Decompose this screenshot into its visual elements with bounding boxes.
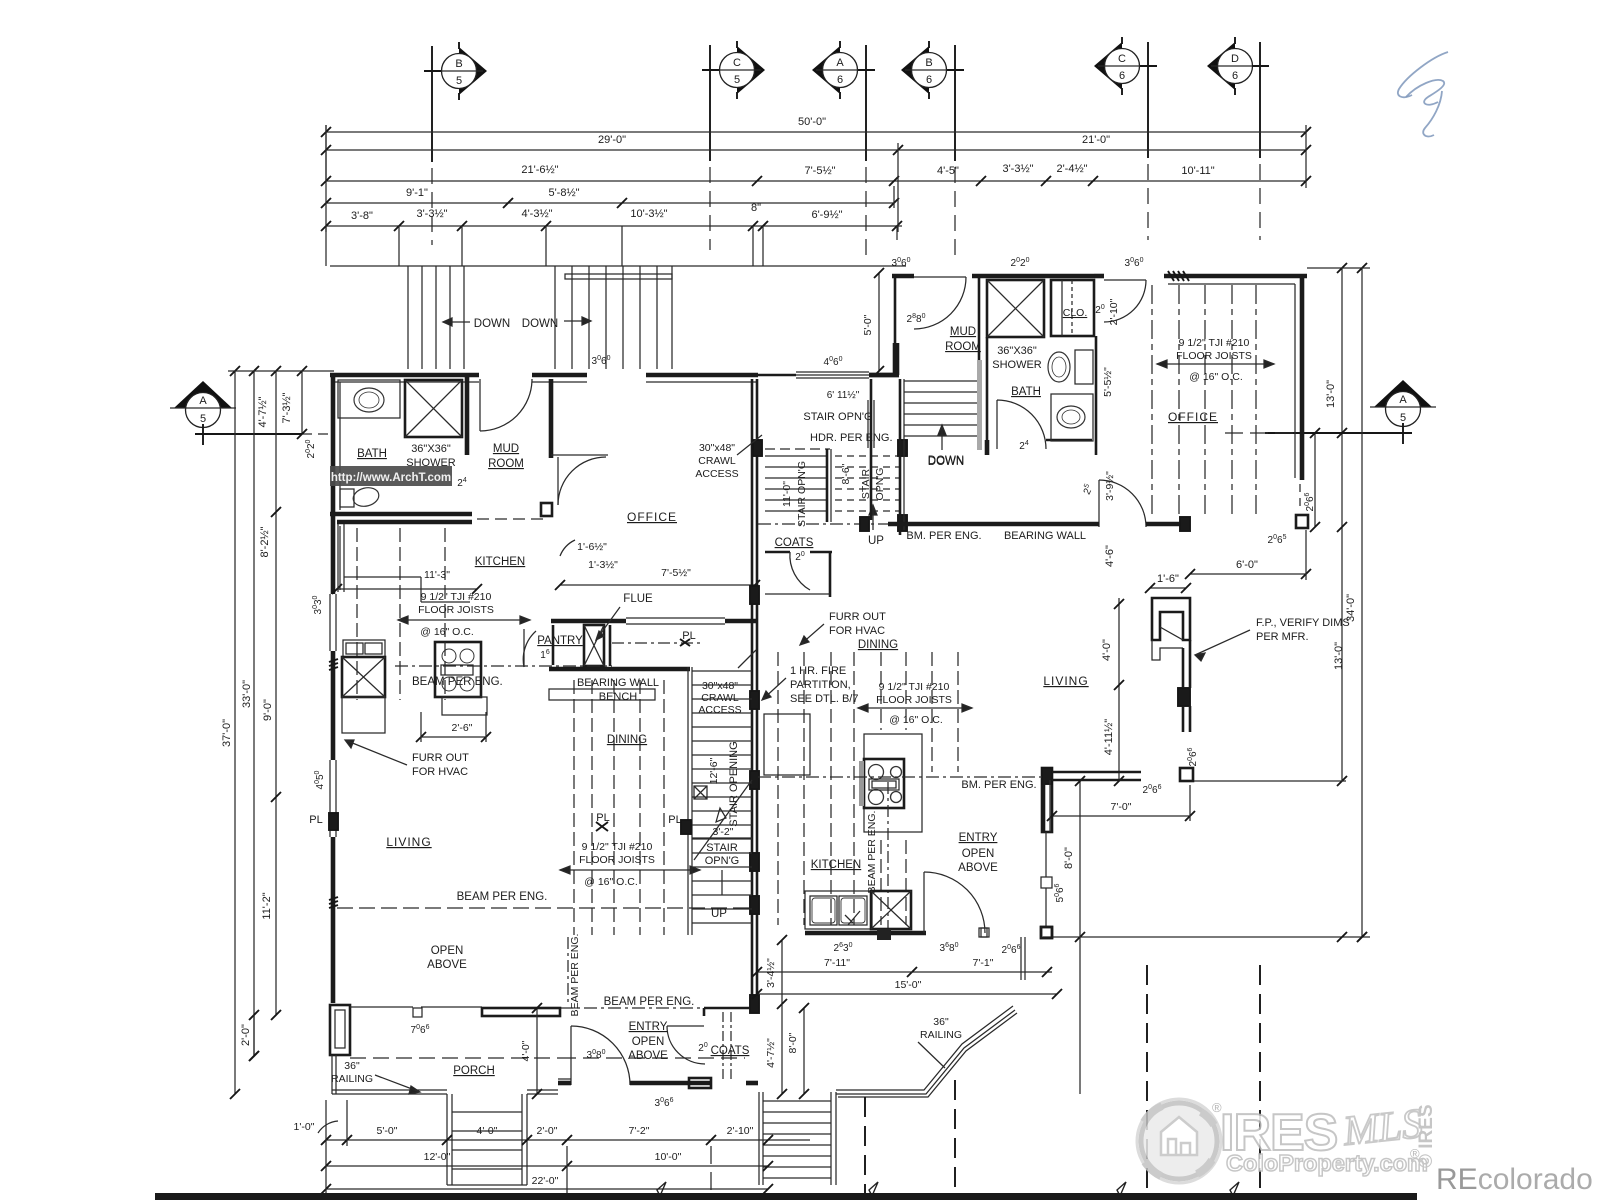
svg-text:9 1/2" TJI #210: 9 1/2" TJI #210: [582, 841, 653, 853]
svg-text:1 HR. FIRE: 1 HR. FIRE: [790, 665, 846, 677]
svg-text:7'-5½": 7'-5½": [804, 165, 835, 177]
svg-text:3'-3½": 3'-3½": [1002, 163, 1033, 175]
svg-text:F.P., VERIFY DIMS: F.P., VERIFY DIMS: [1256, 617, 1350, 629]
svg-text:3680: 3680: [940, 942, 959, 954]
svg-text:4'-0": 4'-0": [1101, 639, 1113, 661]
stair diagonal slash: [694, 780, 752, 860]
svg-text:C: C: [1118, 53, 1126, 65]
left stair treads: [692, 670, 752, 672]
svg-text:12'-0": 12'-0": [424, 1151, 451, 1163]
bottom dim row 2: [326, 1165, 768, 1167]
svg-text:BM. PER ENG.: BM. PER ENG.: [961, 779, 1036, 791]
PL dash-dot at y643: [612, 642, 700, 644]
svg-text:25: 25: [1081, 483, 1096, 497]
svg-text:9 1/2" TJI #210: 9 1/2" TJI #210: [421, 591, 492, 603]
stair B rail bar: [565, 274, 672, 279]
flue box: [584, 625, 604, 666]
svg-text:16: 16: [540, 649, 550, 661]
svg-text:8'-0": 8'-0": [1063, 847, 1075, 869]
svg-text:9 1/2" TJI #210: 9 1/2" TJI #210: [1179, 337, 1250, 349]
hatch blocks right shaft: [753, 440, 762, 456]
svg-text:FLOOR JOISTS: FLOOR JOISTS: [1176, 350, 1252, 362]
svg-text:13'-0": 13'-0": [1333, 642, 1345, 670]
coats closet walls upper: [765, 551, 790, 554]
mudroom/office wall: [549, 379, 554, 458]
porch corner post: [330, 1005, 350, 1055]
svg-text:STAIR OPN'G: STAIR OPN'G: [796, 461, 808, 527]
office south wall + window: [551, 619, 626, 624]
svg-text:DINING: DINING: [858, 639, 898, 651]
svg-text:OPEN: OPEN: [962, 848, 995, 860]
upper floor deck outline (thin): [330, 265, 906, 267]
svg-text:7'-3½": 7'-3½": [281, 392, 293, 423]
svg-text:1'-6": 1'-6": [1157, 573, 1179, 585]
svg-text:7'-1": 7'-1": [973, 957, 994, 969]
grid marker A/6: [812, 41, 864, 99]
svg-text:RAILING: RAILING: [331, 1073, 373, 1085]
mudroom west lower wall + window: [870, 379, 873, 455]
mud room west wall: [894, 276, 897, 343]
svg-text:© IRES: © IRES: [1416, 1104, 1437, 1168]
svg-text:9 1/2" TJI #210: 9 1/2" TJI #210: [879, 681, 950, 693]
porch railing right of steps: [527, 1089, 558, 1091]
svg-text:SEE DTL. B/7: SEE DTL. B/7: [790, 693, 858, 705]
coats door: [667, 1025, 704, 1027]
svg-text:BEAM PER ENG.: BEAM PER ENG.: [457, 891, 548, 903]
kitchen joist dashed lines: [356, 528, 358, 700]
bearing wall south of bath2: [888, 522, 1099, 527]
bottom dim row 3: [326, 1188, 768, 1190]
bath2 walls: [986, 337, 989, 455]
svg-text:BATH: BATH: [357, 448, 387, 460]
svg-text:ENTRY: ENTRY: [959, 832, 998, 844]
bottom dim row 1: [326, 1139, 810, 1141]
svg-text:2066: 2066: [1304, 492, 1316, 511]
svg-text:PORCH: PORCH: [453, 1065, 495, 1077]
top dimension lines: [326, 131, 1306, 133]
section cut dashes left: [302, 433, 330, 435]
svg-text:DOWN: DOWN: [474, 318, 510, 330]
svg-text:36"X36": 36"X36": [411, 443, 451, 455]
kitchen/mudroom boundary dashes: [477, 518, 548, 520]
porch 4-0 vertical dim: [536, 1008, 538, 1094]
right dimension columns: [1341, 268, 1343, 781]
hatch marks on office top wall: [1168, 271, 1174, 281]
svg-text:ABOVE: ABOVE: [958, 862, 998, 874]
refrigerator: [764, 714, 810, 775]
svg-text:®: ®: [1212, 1100, 1222, 1115]
svg-text:4'-11½": 4'-11½": [1103, 719, 1115, 755]
svg-text:3'-8": 3'-8": [351, 210, 373, 222]
svg-text:FLUE: FLUE: [623, 593, 653, 605]
svg-text:OFFICE: OFFICE: [627, 510, 677, 524]
left dimension columns: [234, 371, 236, 1094]
blue signature top right: [1398, 52, 1448, 97]
svg-text:COATS: COATS: [711, 1045, 750, 1057]
svg-text:5: 5: [200, 413, 206, 425]
svg-text:30"x48": 30"x48": [702, 680, 738, 692]
svg-text:@ 16" O.C.: @ 16" O.C.: [420, 626, 473, 638]
svg-text:37'-0": 37'-0": [221, 719, 233, 747]
svg-text:A: A: [1399, 394, 1407, 406]
hatch block corner: [1042, 768, 1052, 784]
svg-text:4'-5": 4'-5": [937, 165, 959, 177]
dashed verticals lower right: [864, 1097, 866, 1195]
down stairs mudroom: [899, 379, 902, 535]
svg-text:1'-0": 1'-0": [294, 1121, 315, 1133]
svg-text:3060: 3060: [892, 257, 911, 269]
fireplace: [1152, 598, 1190, 640]
svg-text:3030: 3030: [312, 595, 324, 614]
svg-text:SHOWER: SHOWER: [992, 359, 1042, 371]
svg-text:4'-7½": 4'-7½": [257, 396, 269, 427]
kitchen joist arrow: [398, 616, 530, 624]
right vertical dims entry: [781, 940, 783, 1004]
mud room door arc (from top wall): [479, 379, 481, 431]
svg-text:24: 24: [1019, 440, 1029, 452]
window west of entry door: [558, 1078, 571, 1080]
tick slashes on bottom line: [657, 1182, 666, 1196]
dining joist arrow: [560, 869, 700, 871]
svg-text:6' 11½": 6' 11½": [827, 390, 860, 401]
entry door right: [923, 872, 925, 933]
svg-text:2880: 2880: [907, 313, 926, 325]
svg-text:REcolorado: REcolorado: [1436, 1163, 1593, 1196]
entry east wall pieces: [1043, 780, 1046, 832]
svg-text:BEAM PER ENG.: BEAM PER ENG.: [412, 676, 503, 688]
svg-text:FLOOR JOISTS: FLOOR JOISTS: [579, 854, 655, 866]
svg-text:15'-0": 15'-0": [895, 979, 922, 991]
svg-text:@ 16" O.C.: @ 16" O.C.: [1189, 371, 1242, 383]
svg-text:4'-0": 4'-0": [477, 1125, 498, 1137]
bottom border line: [155, 1193, 1417, 1200]
svg-text:8'-6": 8'-6": [840, 463, 852, 484]
svg-text:8'-2½": 8'-2½": [259, 526, 271, 557]
svg-text:PL: PL: [309, 814, 322, 826]
svg-text:4'-3½": 4'-3½": [521, 208, 552, 220]
kitchen counter outline: [337, 524, 339, 592]
right kitchen sink counter: [805, 891, 872, 929]
svg-text:C: C: [733, 57, 741, 69]
svg-text:OFFICE: OFFICE: [1168, 410, 1218, 424]
svg-text:OPEN: OPEN: [431, 945, 464, 957]
svg-text:36": 36": [933, 1016, 949, 1028]
svg-text:UP: UP: [711, 908, 727, 920]
bearing wall bench: [549, 667, 690, 672]
7-0 dim: [1052, 815, 1190, 817]
2-6 dim kitchen: [421, 736, 486, 738]
svg-text:10'-0": 10'-0": [655, 1151, 682, 1163]
left exterior wall: [331, 375, 336, 594]
svg-text:9'-1": 9'-1": [406, 187, 428, 199]
svg-text:FLOOR JOISTS: FLOOR JOISTS: [418, 604, 494, 616]
svg-text:11'-2": 11'-2": [261, 892, 273, 919]
office door: [557, 457, 559, 505]
grid marker C/6: [1094, 37, 1146, 95]
bath2 fixtures: toilet: [1075, 350, 1093, 384]
inner face lines (double-line walls): [333, 381, 479, 383]
grid marker D/6: [1207, 37, 1259, 95]
right stair shaft (upper): [765, 448, 830, 450]
svg-text:PER MFR.: PER MFR.: [1256, 631, 1309, 643]
right side porch wall pieces: [1041, 927, 1052, 938]
hatch blocks on fire wall: [750, 586, 759, 604]
svg-text:4'-7½": 4'-7½": [765, 1038, 777, 1068]
svg-text:2630: 2630: [834, 942, 853, 954]
bath2 L walls: [1046, 439, 1092, 442]
svg-text:5'-5½": 5'-5½": [1102, 367, 1114, 397]
svg-text:2065: 2065: [1268, 534, 1287, 546]
top wall of left section: [330, 373, 479, 378]
svg-text:ColoProperty.com: ColoProperty.com: [1226, 1150, 1428, 1176]
porch front steps: [446, 1094, 448, 1185]
svg-text:20: 20: [1095, 304, 1105, 316]
svg-text:24: 24: [457, 477, 467, 489]
svg-text:BEAM PER ENG.: BEAM PER ENG.: [604, 996, 695, 1008]
svg-text:8'-0": 8'-0": [787, 1032, 799, 1053]
svg-text:4060: 4060: [824, 356, 843, 368]
shower 36x36 (left): [405, 380, 462, 437]
svg-text:BEAM PER ENG.: BEAM PER ENG.: [569, 934, 581, 1017]
svg-text:KITCHEN: KITCHEN: [811, 859, 861, 871]
stair rail gray bar: [977, 360, 982, 450]
svg-text:RAILING: RAILING: [920, 1029, 962, 1041]
svg-text:33'-0": 33'-0": [241, 680, 253, 708]
svg-text:@ 16" O.C.: @ 16" O.C.: [584, 876, 637, 888]
svg-text:9'-0": 9'-0": [262, 699, 274, 721]
svg-text:BM. PER ENG.: BM. PER ENG.: [906, 530, 981, 542]
stair B down arrow: [564, 317, 591, 325]
svg-text:MUD: MUD: [950, 326, 976, 338]
svg-text:2'-10": 2'-10": [727, 1125, 754, 1137]
crawl access leader: [738, 650, 756, 668]
porch open-above edge lines: [350, 1006, 413, 1008]
svg-text:20: 20: [698, 1042, 708, 1054]
CLO: [1051, 280, 1094, 336]
svg-text:6: 6: [1119, 70, 1125, 82]
svg-text:30"x48": 30"x48": [699, 442, 735, 454]
section cut dashes right: [1225, 432, 1300, 434]
svg-text:10'-11": 10'-11": [1181, 165, 1214, 177]
2-0 dim left bottom: [253, 1015, 255, 1056]
section marker A/5 right: [1370, 380, 1436, 427]
svg-text:STAIR OPENING: STAIR OPENING: [728, 741, 740, 826]
stair A down arrow: [443, 318, 470, 326]
bench outline: [549, 689, 655, 700]
small post right: [1180, 768, 1193, 781]
svg-text:OPN'G: OPN'G: [705, 855, 740, 867]
svg-text:DOWN: DOWN: [522, 318, 558, 330]
svg-text:STAIR OPN'G: STAIR OPN'G: [803, 411, 872, 423]
right joist arrow: [858, 707, 972, 709]
clo door arc: [1104, 279, 1146, 281]
right kitchen joist dashed lines: [777, 652, 779, 925]
svg-text:PARTITION,: PARTITION,: [790, 679, 851, 691]
svg-text:29'-0": 29'-0": [598, 134, 626, 146]
svg-text:1'-3½": 1'-3½": [588, 559, 618, 571]
svg-text:3060: 3060: [592, 355, 611, 367]
svg-text:13'-0": 13'-0": [1325, 380, 1337, 408]
svg-text:CLO.: CLO.: [1063, 307, 1088, 319]
bottom extension lines: [325, 1100, 327, 1195]
svg-text:2'-0": 2'-0": [240, 1024, 252, 1046]
entry ext stairs: [758, 1092, 760, 1185]
svg-text:MUD: MUD: [493, 443, 519, 455]
svg-text:36"X36": 36"X36": [997, 345, 1037, 357]
svg-text:2'-6": 2'-6": [452, 722, 473, 734]
svg-text:50'-0": 50'-0": [798, 116, 826, 128]
svg-text:3'-3½": 3'-3½": [416, 208, 447, 220]
fire partition wall (center): [751, 379, 754, 1004]
beam line into living: [758, 776, 1042, 778]
bath1 vanity counter: [338, 380, 400, 418]
svg-text:FURR OUT: FURR OUT: [829, 611, 886, 623]
svg-text:ENTRY: ENTRY: [629, 1021, 668, 1033]
svg-text:KITCHEN: KITCHEN: [475, 556, 525, 568]
svg-text:LIVING: LIVING: [1043, 674, 1088, 688]
porch railing: [332, 1089, 447, 1091]
IRES MLS watermark: [1137, 1099, 1437, 1183]
bath1 sink: [354, 388, 384, 412]
jog wall top: [869, 373, 899, 378]
7-1 dim: [912, 971, 1052, 973]
svg-text:FURR OUT: FURR OUT: [412, 752, 469, 764]
svg-text:11'-0": 11'-0": [781, 481, 793, 507]
porch post middle: [413, 1008, 422, 1017]
grid marker B/5: [435, 42, 487, 100]
svg-text:6: 6: [926, 74, 932, 86]
svg-text:5066: 5066: [1054, 883, 1066, 902]
svg-text:ABOVE: ABOVE: [427, 959, 467, 971]
svg-text:DOWN: DOWN: [928, 455, 964, 467]
svg-text:7'-2": 7'-2": [629, 1125, 650, 1137]
svg-text:BATH: BATH: [1011, 386, 1041, 398]
svg-text:10'-3½": 10'-3½": [630, 208, 667, 220]
left stair shaft wall: [687, 667, 689, 935]
svg-text:BEAM PER ENG.: BEAM PER ENG.: [866, 811, 878, 894]
svg-text:PANTRY: PANTRY: [537, 635, 583, 647]
svg-text:BEARING WALL: BEARING WALL: [577, 677, 659, 689]
svg-text:BENCH: BENCH: [599, 691, 638, 703]
svg-text:6'-0": 6'-0": [1236, 559, 1258, 571]
svg-text:2066: 2066: [1143, 784, 1162, 796]
svg-text:20: 20: [795, 551, 805, 563]
top stair A (down) treads: [407, 266, 409, 369]
section marker A/5 left: [170, 381, 236, 428]
svg-text:CRAWL: CRAWL: [698, 455, 736, 467]
kitchen island w/ range: [864, 734, 922, 832]
small xbox: [694, 786, 707, 799]
svg-text:5'-8½": 5'-8½": [548, 187, 579, 199]
7-11 dim: [757, 971, 912, 973]
svg-text:3'-2": 3'-2": [713, 826, 734, 838]
svg-text:A: A: [836, 57, 844, 69]
right office joist dashed: [1151, 285, 1153, 515]
beam over entry: [482, 1008, 560, 1016]
svg-text:ACCESS: ACCESS: [695, 468, 738, 480]
svg-text:3'-9½": 3'-9½": [1104, 471, 1116, 501]
mudroom NW jog wall: [869, 373, 899, 378]
bath2 south door: [1098, 480, 1100, 527]
svg-text:2020: 2020: [1011, 257, 1030, 269]
entry door (3-0-8-0): [570, 1026, 572, 1085]
svg-text:2066: 2066: [1002, 944, 1021, 956]
hatch post marks on left wall: [329, 659, 338, 662]
svg-text:UP: UP: [868, 535, 884, 547]
top wall right section: [892, 274, 914, 279]
svg-text:4050: 4050: [314, 770, 326, 789]
svg-text:B: B: [455, 58, 462, 70]
svg-text:12'-6": 12'-6": [708, 757, 720, 784]
right kitchen X cabinet: [871, 891, 911, 929]
3-2 dim: [692, 837, 752, 839]
porch beams dashed: [350, 1057, 560, 1059]
svg-text:8": 8": [751, 202, 761, 214]
grid marker B/6: [901, 41, 953, 99]
svg-text:ROOM: ROOM: [488, 458, 524, 470]
svg-text:2'-4½": 2'-4½": [1056, 163, 1087, 175]
svg-text:ABOVE: ABOVE: [628, 1050, 668, 1062]
svg-text:5: 5: [456, 75, 462, 87]
svg-text:7066: 7066: [411, 1024, 430, 1036]
svg-text:2020: 2020: [305, 439, 317, 458]
svg-text:5'-0": 5'-0": [862, 314, 874, 335]
svg-text:21'-6½": 21'-6½": [521, 164, 558, 176]
svg-text:OPEN: OPEN: [632, 1036, 665, 1048]
svg-text:COATS: COATS: [775, 537, 814, 549]
ArchT watermark bar: [330, 466, 452, 486]
svg-text:2066: 2066: [1187, 747, 1199, 766]
kitchen south wall: [805, 931, 926, 936]
15-0 dim: [757, 993, 1057, 995]
kitchen counter + sink (left wall): [343, 640, 385, 657]
south walls entry: [558, 1081, 571, 1086]
svg-text:4'-6": 4'-6": [1104, 545, 1116, 567]
svg-text:A: A: [199, 395, 207, 407]
svg-text:ACCESS: ACCESS: [698, 704, 741, 716]
svg-text:1'-6½": 1'-6½": [577, 541, 607, 553]
stove/range: [435, 642, 481, 697]
office joist arrow: [1157, 363, 1274, 365]
svg-text:BEARING WALL: BEARING WALL: [1004, 530, 1086, 542]
svg-text:3060: 3060: [1125, 257, 1144, 269]
closet dash-dot verticals: [722, 1012, 724, 1082]
svg-text:3080: 3080: [587, 1049, 606, 1061]
svg-text:ROOM: ROOM: [945, 341, 981, 353]
dashed open railing right shaft: [835, 455, 900, 457]
top-right office corner wall: [1300, 276, 1305, 480]
svg-text:LIVING: LIVING: [386, 835, 431, 849]
bath2 door from hall: [997, 400, 1046, 449]
svg-text:FOR HVAC: FOR HVAC: [829, 625, 885, 637]
grid marker C/5: [713, 41, 765, 99]
top stair B (down) treads: [554, 266, 556, 369]
svg-text:7'-11": 7'-11": [824, 957, 850, 969]
svg-text:7'-5½": 7'-5½": [661, 567, 691, 579]
svg-text:B: B: [925, 57, 932, 69]
svg-text:5: 5: [1400, 412, 1406, 424]
svg-text:5: 5: [734, 74, 740, 86]
svg-text:6: 6: [837, 74, 843, 86]
svg-text:D: D: [1231, 53, 1239, 65]
svg-text:7'-0": 7'-0": [1111, 801, 1132, 813]
svg-text:36": 36": [344, 1060, 360, 1072]
svg-text:11'-3": 11'-3": [424, 569, 450, 581]
svg-text:http://www.ArchT.com: http://www.ArchT.com: [331, 472, 451, 484]
living south wall: [1042, 768, 1052, 832]
dining joist dashed lines: [573, 680, 575, 935]
shower2: [987, 280, 1044, 337]
